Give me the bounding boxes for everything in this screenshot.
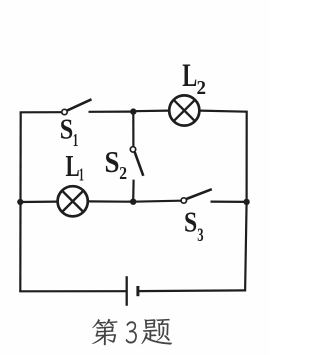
wire right vertical bbox=[245, 111, 247, 292]
switch S1 bbox=[62, 99, 92, 114]
wire node A down to switch S2 bbox=[132, 112, 134, 147]
wire bottom-left to battery bbox=[20, 290, 126, 291]
switch S2 bbox=[130, 147, 143, 176]
wire S2 to node C bbox=[132, 180, 135, 202]
wire S3 to node D bbox=[211, 201, 247, 203]
svg-text:S2: S2 bbox=[105, 144, 128, 183]
wire left vertical bbox=[19, 112, 22, 291]
wire lamp L1 to node C bbox=[88, 200, 133, 203]
node D junction dot right bbox=[243, 199, 249, 205]
caption character 题 bbox=[141, 319, 172, 345]
svg-text:S1: S1 bbox=[60, 113, 79, 150]
node C junction dot bbox=[130, 199, 136, 205]
svg-text:L2: L2 bbox=[182, 58, 206, 99]
node B junction dot left bbox=[17, 199, 23, 205]
wire node C to switch S3 bbox=[133, 201, 181, 202]
lamp L2 bbox=[169, 95, 199, 125]
wire battery to bottom-right bbox=[138, 289, 245, 292]
battery short plate bbox=[136, 286, 139, 296]
wire node B to lamp L1 bbox=[20, 201, 57, 204]
caption digit 3 bbox=[126, 321, 137, 343]
wire S1 to node A bbox=[89, 110, 134, 112]
svg-text:S3: S3 bbox=[184, 207, 204, 246]
wire node A to lamp L2 bbox=[133, 109, 169, 112]
node A junction dot bbox=[130, 108, 136, 114]
svg-text:L1: L1 bbox=[66, 148, 84, 185]
caption character 第 bbox=[92, 319, 118, 346]
switch S3 bbox=[181, 189, 212, 203]
wire top-left segment bbox=[20, 111, 62, 113]
wire lamp L2 to top-right corner bbox=[200, 111, 247, 112]
battery long plate bbox=[126, 276, 128, 306]
lamp L1 bbox=[58, 186, 88, 216]
